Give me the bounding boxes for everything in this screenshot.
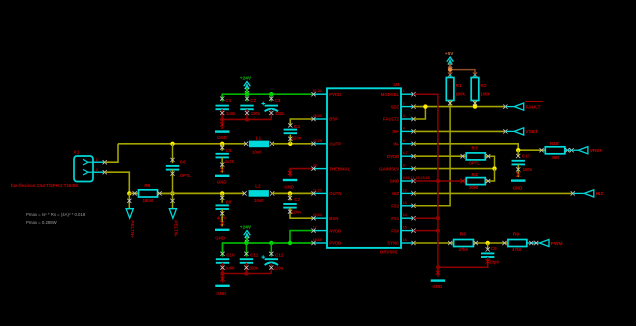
svg-text:33p0: 33p0 — [489, 259, 499, 264]
wire C10-C12 bottom gnd rail (red) — [220, 263, 273, 274]
ground GND main (bottom) — [431, 281, 445, 289]
svg-text:16: 16 — [403, 238, 407, 242]
node junction C4 bottom on OUTP rail — [288, 142, 292, 146]
wire IN- to C17 node — [414, 144, 519, 150]
svg-text:C7: C7 — [294, 197, 300, 202]
svg-text:8: 8 — [403, 164, 405, 168]
wire GND row to R4 (red) — [414, 179, 467, 183]
svg-text:HIZ: HIZ — [392, 191, 399, 196]
wire OUTN rail right segment — [272, 192, 313, 194]
pin FAULTZ (3) of U1 — [383, 114, 416, 122]
flag VREF — [578, 147, 602, 154]
power +5V supply arrow — [445, 51, 454, 70]
wire C1-C3 bottom gnd rail (red) — [220, 109, 273, 119]
wire OUTP rail left segment (yellow) — [118, 143, 246, 145]
flag PWM — [540, 239, 563, 246]
wire FS0 to gnd rail (red) — [414, 230, 438, 232]
svg-text:C1: C1 — [225, 98, 231, 103]
node junction C10 bottom — [220, 271, 224, 275]
pin 1 of X1 — [93, 157, 107, 164]
wire C4 top to BSP pin — [288, 119, 313, 128]
pin IN- (5) of U1 — [393, 139, 415, 147]
svg-text:R2: R2 — [480, 83, 486, 89]
flag VSET — [503, 128, 538, 135]
resistor R8 — [454, 232, 474, 252]
resistor R4 — [466, 172, 485, 190]
connector X1 — [74, 150, 94, 182]
svg-text:220u: 220u — [275, 111, 285, 116]
svg-text:L1: L1 — [256, 135, 262, 140]
resistor R2 — [471, 74, 490, 100]
wire C8 bottom to gnd — [220, 209, 224, 226]
wire OUTP rail right segment — [272, 143, 314, 145]
wire SDZ/FAULTZ jog — [414, 107, 426, 119]
node junction +5V — [448, 67, 452, 71]
resistor R5 — [139, 183, 158, 203]
svg-text:100n: 100n — [523, 167, 533, 172]
svg-text:C3: C3 — [275, 98, 281, 103]
node junction C2 bottom — [245, 117, 249, 121]
pin SYNC (16) of U1 — [387, 238, 415, 246]
svg-text:47k0: 47k0 — [459, 247, 469, 252]
wire C11 stub — [244, 243, 248, 257]
ground GND under C10 — [215, 286, 229, 296]
wire GAIN/SLV row — [414, 168, 495, 170]
wire R9 right to PWM flag — [527, 241, 540, 245]
svg-text:100k: 100k — [480, 91, 490, 96]
wire C17 bottom to gnd — [516, 164, 520, 177]
svg-text:220n: 220n — [292, 136, 302, 141]
wire R2 bottom to FAULT rail — [473, 101, 477, 107]
svg-text:R1: R1 — [456, 83, 462, 89]
capacitor C5 — [216, 148, 235, 164]
svg-text:PELTN-: PELTN- — [173, 220, 178, 237]
svg-text:HIZ: HIZ — [596, 191, 604, 197]
wire FAULT rail (SDZ row) — [414, 106, 506, 108]
pin DVDD (6,7) of U1 — [387, 151, 416, 159]
svg-text:AVDD: AVDD — [329, 228, 341, 233]
svg-text:2: 2 — [403, 102, 405, 106]
node junction C3 top — [269, 92, 273, 96]
svg-text:R5: R5 — [144, 183, 150, 188]
wire FS1 to gnd rail (red) — [414, 217, 438, 219]
pin GAIN/SLV (8) of U1 — [379, 164, 415, 172]
node junction C9 top — [486, 241, 490, 245]
wire R5 left stub — [129, 191, 138, 195]
svg-text:C2: C2 — [250, 98, 256, 103]
svg-text:BSP: BSP — [329, 117, 338, 122]
wire R5 right to node B — [158, 191, 173, 195]
svg-text:26,30: 26,30 — [313, 114, 322, 118]
wire C1 stub — [220, 94, 224, 101]
wire C17 stub — [516, 150, 520, 158]
power +24V supply arrow (bottom) — [240, 224, 252, 243]
svg-text:FAULT: FAULT — [526, 104, 541, 110]
capacitor C2 — [240, 98, 260, 116]
svg-text:R18: R18 — [550, 141, 559, 147]
svg-text:GND: GND — [217, 179, 227, 184]
capacitor C1 — [216, 98, 237, 116]
svg-text:VSET: VSET — [526, 129, 539, 135]
svg-text:Pmax = Is² * Rs = (4A)² * 0.01: Pmax = Is² * Rs = (4A)² * 0.018 — [26, 212, 86, 217]
node junction PELTN+ tap — [127, 191, 131, 195]
wire gnd rail drop to GND symbol — [436, 267, 440, 276]
wire C4 bottom stub — [288, 135, 292, 144]
svg-text:36R: 36R — [552, 155, 560, 160]
svg-text:C12: C12 — [275, 252, 284, 257]
wire SYNC row to R8 — [414, 241, 454, 245]
svg-text:+24V: +24V — [240, 76, 252, 82]
svg-text:SDZ: SDZ — [391, 104, 400, 109]
wire C6 top stub from OUTP rail — [170, 144, 174, 163]
svg-text:GND: GND — [284, 185, 294, 190]
wire OUTN rail left segment — [162, 192, 245, 194]
svg-text:18,19: 18,19 — [313, 238, 322, 242]
wire C12 stub — [269, 243, 273, 257]
wire C2 stub — [245, 94, 249, 101]
svg-text:OPTL: OPTL — [180, 173, 192, 178]
svg-text:C6: C6 — [180, 159, 186, 164]
svg-text:C4: C4 — [294, 124, 300, 129]
node junction gain divider — [492, 166, 496, 170]
pin BSN (20,24) of U1 — [311, 213, 338, 221]
svg-text:har-flexicon 2,54 T/SPH-2 T26: har-flexicon 2,54 T/SPH-2 T26 BK — [11, 183, 79, 188]
pin IN+ (4) of U1 — [392, 126, 415, 134]
svg-text:VREF: VREF — [590, 148, 603, 154]
pin AVDD (17) of U1 — [311, 226, 341, 234]
pin PVDD (31,32) of U1 — [311, 89, 341, 97]
capacitor C10 — [216, 252, 235, 270]
note Pmax value — [26, 220, 58, 225]
node junction gnd rail / C9 return — [436, 265, 440, 269]
wire C9 bottom to gnd rail (red) — [438, 257, 490, 267]
svg-text:OUTN: OUTN — [329, 191, 341, 196]
flag FAULT — [503, 102, 543, 111]
svg-text:X1: X1 — [74, 150, 80, 156]
ground GND (top, under C1-C3) — [215, 132, 229, 141]
node junction C1 bottom — [220, 117, 224, 121]
svg-text:GND: GND — [432, 284, 442, 289]
resistor R3 — [466, 145, 485, 165]
svg-text:BSN: BSN — [329, 216, 338, 221]
op-amp U1 DRV595 body — [327, 82, 401, 254]
wire +24V bottom rail (green) — [223, 243, 314, 254]
svg-text:9,10,11,22,25,28: 9,10,11,22,25,28 — [403, 176, 430, 180]
node junction C11 bottom — [244, 271, 248, 275]
wire PELTN+ flag drop — [127, 193, 131, 208]
node junction gnd rail / FS1 — [436, 216, 440, 220]
pin HIZ (12) of U1 — [392, 188, 415, 196]
svg-text:C11: C11 — [250, 252, 259, 257]
svg-text:PVDD: PVDD — [329, 241, 341, 246]
ground GND for THERMAL — [283, 180, 297, 190]
svg-text:C17: C17 — [522, 154, 531, 159]
svg-text:DRV595: DRV595 — [380, 249, 398, 254]
wire +5V brown tee — [448, 70, 477, 77]
note Pmax formula — [26, 212, 86, 217]
svg-text:OUTP: OUTP — [329, 142, 341, 147]
pin GND (9,10,11,22,25,28) of U1 — [390, 176, 430, 184]
capacitor C8 — [216, 199, 233, 220]
node junction C12 top — [269, 241, 273, 245]
pin FS1 (14) of U1 — [391, 213, 415, 221]
svg-text:13: 13 — [403, 201, 407, 205]
svg-text:GND: GND — [390, 179, 400, 184]
capacitor C9 — [481, 246, 500, 264]
node junction gnd rail / GND pins — [436, 179, 440, 183]
pin 2 of X1 — [93, 167, 107, 174]
svg-text:3: 3 — [403, 114, 405, 118]
label har-flexicon — [11, 183, 79, 188]
wire gnd drop from C10 — [220, 274, 224, 283]
capacitor C4 — [284, 124, 302, 140]
ground GND under C17 — [511, 181, 525, 191]
svg-text:C8: C8 — [226, 199, 232, 204]
svg-text:Pmax = 0.288W: Pmax = 0.288W — [26, 220, 58, 225]
wire R8 right to C9 node — [473, 241, 508, 245]
pin PVDD (18,19) of U1 — [311, 238, 341, 246]
inductor L2 — [242, 184, 274, 204]
node junction gnd rail / FS0 — [436, 228, 440, 232]
svg-text:4: 4 — [403, 126, 405, 130]
svg-text:IN-: IN- — [393, 142, 399, 147]
node junction AVDD branch — [288, 241, 292, 245]
svg-text:4u70: 4u70 — [225, 159, 235, 164]
wire C5 bottom to gnd — [220, 157, 224, 172]
svg-text:THERMAL: THERMAL — [329, 166, 350, 171]
svg-text:1u00: 1u00 — [226, 111, 236, 116]
svg-text:U1: U1 — [394, 82, 400, 88]
svg-text:10u0: 10u0 — [252, 150, 262, 155]
svg-text:FS0: FS0 — [391, 228, 399, 233]
svg-text:21,23: 21,23 — [313, 188, 322, 192]
wire AVDD branch — [290, 231, 314, 243]
svg-text:GND: GND — [216, 291, 226, 296]
pin OUTN (21,23) of U1 — [311, 188, 341, 196]
wire C10 stub — [220, 243, 224, 257]
node junction C8 top on OUTN rail — [220, 191, 224, 195]
flag PELTN+ — [126, 209, 135, 239]
capacitor C6 (optional) — [166, 159, 192, 178]
wire MODSEL to gnd rail (red) — [414, 94, 438, 267]
svg-text:GND: GND — [513, 185, 523, 190]
wire C5 stub — [220, 144, 224, 151]
wire gnd drop from C1 rail — [220, 119, 224, 129]
svg-text:GAIN/SLV: GAIN/SLV — [379, 166, 399, 171]
svg-text:R3: R3 — [472, 145, 478, 151]
pin MODSEL (1) of U1 — [381, 89, 416, 97]
node junction C17/R18 — [516, 148, 520, 152]
svg-text:17: 17 — [313, 226, 317, 230]
wire VSET rail (IN+ row) — [414, 130, 506, 132]
wire X1 pin2 to R5 — [105, 172, 130, 193]
svg-text:5: 5 — [403, 139, 405, 143]
wire PELTN- flag drop — [170, 193, 174, 208]
resistor R1 — [446, 74, 465, 100]
svg-text:C5: C5 — [226, 148, 232, 153]
svg-text:15: 15 — [403, 226, 407, 230]
pin FS2 (13) of U1 — [391, 201, 415, 209]
svg-text:MODSEL: MODSEL — [381, 92, 400, 97]
capacitor C11 — [240, 252, 259, 270]
svg-text:+5V: +5V — [445, 51, 454, 57]
svg-text:C10: C10 — [226, 252, 235, 257]
node junction C6 top on OUTP rail — [170, 142, 174, 146]
wire HIZ rail — [414, 192, 573, 194]
svg-text:220n: 220n — [291, 209, 301, 214]
svg-text:R9: R9 — [513, 232, 519, 238]
svg-text:31,32: 31,32 — [313, 89, 322, 93]
node junction C11/+24V — [244, 241, 248, 245]
svg-text:DVDD: DVDD — [387, 154, 399, 159]
svg-text:27,29: 27,29 — [313, 139, 322, 143]
wire C9 stub — [486, 243, 490, 252]
node junction C7 top — [288, 191, 292, 195]
svg-text:FAULTZ: FAULTZ — [383, 117, 400, 122]
node junction B (R5/C6/PELTN-) — [170, 191, 174, 195]
inductor L1 — [244, 135, 274, 154]
svg-text:R8: R8 — [460, 232, 466, 238]
wire C7 stub — [288, 193, 292, 200]
flag PELTN- — [169, 209, 178, 238]
node junction R2 bottom — [473, 104, 477, 108]
svg-text:1u00: 1u00 — [225, 265, 235, 270]
svg-text:SYNC: SYNC — [387, 241, 399, 246]
pin SDZ (2) of U1 — [391, 102, 416, 110]
flag HIZ — [571, 190, 604, 197]
resistor R9 — [508, 232, 527, 252]
wire R4 right to gain node — [485, 169, 494, 184]
svg-text:1: 1 — [403, 89, 405, 93]
node junction C5 top on OUTP rail — [220, 142, 224, 146]
capacitor C17 — [512, 154, 533, 172]
svg-text:IN+: IN+ — [392, 129, 399, 134]
svg-text:L2: L2 — [255, 184, 261, 189]
wire X1 pin1 to OUTP rail — [105, 144, 118, 162]
pin OUTP (27,29) of U1 — [311, 139, 341, 147]
pin FS0 (15) of U1 — [391, 226, 415, 234]
svg-text:20,24: 20,24 — [313, 213, 322, 217]
wire C8 stub — [220, 193, 224, 202]
svg-text:10u0: 10u0 — [254, 198, 264, 203]
svg-text:FS2: FS2 — [391, 204, 399, 209]
svg-text:47k0: 47k0 — [512, 247, 522, 252]
svg-text:OPTL: OPTL — [469, 161, 481, 166]
power +24V supply arrow (top) — [240, 76, 252, 95]
svg-text:33: 33 — [313, 164, 317, 168]
svg-text:20k0: 20k0 — [469, 185, 479, 190]
svg-text:100n: 100n — [251, 111, 261, 116]
svg-text:PELTN+: PELTN+ — [130, 220, 135, 238]
pin BSP (26,30) of U1 — [311, 114, 338, 122]
wire C3 stub — [269, 94, 273, 101]
wire +24V top rail (green) PVDD net — [222, 94, 313, 98]
wire THERMAL pin to gnd (red) — [288, 169, 314, 177]
wire DVDD row to R3 — [414, 154, 467, 158]
resistor R18 — [545, 141, 578, 160]
wire R3 right to gain node — [485, 154, 494, 169]
capacitor C12 (polarized) — [261, 252, 283, 270]
pin THERMAL (33) of U1 — [311, 164, 350, 172]
wire R1 bottom to FS2 (long vertical) — [414, 101, 453, 206]
svg-text:R4: R4 — [472, 172, 478, 178]
svg-text:100n: 100n — [249, 265, 259, 270]
wire C7 bottom to BSN pin — [288, 208, 314, 219]
svg-text:PVDD: PVDD — [329, 92, 341, 97]
capacitor C7 — [283, 197, 301, 215]
svg-text:220u: 220u — [274, 265, 284, 270]
wire C6 bottom to node B — [170, 170, 174, 194]
svg-text:FS1: FS1 — [391, 216, 399, 221]
svg-text:C9: C9 — [491, 246, 497, 251]
node junction SDZ jog — [423, 104, 427, 108]
svg-text:GND: GND — [215, 236, 225, 241]
svg-text:+24V: +24V — [240, 224, 252, 230]
wire VREF rail to R18 — [518, 148, 545, 152]
node junction C2 top — [245, 92, 249, 96]
svg-text:6,7: 6,7 — [403, 151, 408, 155]
ground GND under C5 — [215, 176, 229, 185]
svg-text:PWM: PWM — [551, 241, 563, 247]
svg-text:12: 12 — [403, 188, 407, 192]
ground GND under C8 — [215, 230, 229, 241]
capacitor C3 (polarized) — [261, 98, 285, 116]
svg-text:18m0: 18m0 — [143, 198, 154, 203]
svg-text:100k: 100k — [456, 91, 466, 96]
svg-text:14: 14 — [403, 213, 407, 217]
svg-text:GND: GND — [217, 135, 227, 140]
